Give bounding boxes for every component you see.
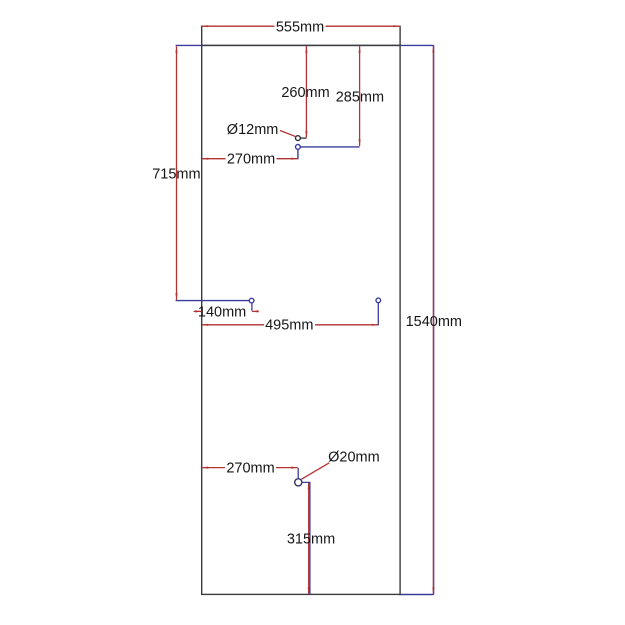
svg-text:1540mm: 1540mm xyxy=(406,314,462,330)
blue notch side line xyxy=(297,149,299,159)
black tick hole to 260mm line xyxy=(300,137,306,139)
dimension 260mm line xyxy=(305,46,307,138)
svg-text:315mm: 315mm xyxy=(287,531,335,547)
black panel outline xyxy=(202,45,400,594)
dimension 555mm line xyxy=(202,25,400,27)
leader line 20mm xyxy=(302,463,330,479)
blue panel right edge xyxy=(433,45,435,594)
blue notch top line xyxy=(300,146,359,148)
svg-text:Ø20mm: Ø20mm xyxy=(328,449,380,465)
black right edge extension xyxy=(399,26,401,46)
svg-text:270mm: 270mm xyxy=(227,152,275,168)
dimension 715mm line xyxy=(176,46,178,300)
dimension 315mm line xyxy=(308,483,310,594)
blue witness below ledge hole xyxy=(251,303,253,311)
hole 12mm black circle xyxy=(296,136,301,141)
dimension 270mm upper line xyxy=(202,158,298,160)
svg-text:270mm: 270mm xyxy=(226,461,274,477)
dimension 140mm left segment xyxy=(194,310,202,312)
svg-text:715mm: 715mm xyxy=(152,166,200,182)
blue ledge line at mid height xyxy=(176,300,250,302)
svg-text:Ø12mm: Ø12mm xyxy=(227,122,279,138)
svg-text:285mm: 285mm xyxy=(336,90,384,106)
svg-text:140mm: 140mm xyxy=(198,305,246,321)
dimension 270mm lower line xyxy=(202,467,298,469)
hole 20mm circle xyxy=(295,479,302,486)
blue witness below right hole xyxy=(377,303,379,326)
hole circle at ledge xyxy=(249,298,254,303)
dimension 1540mm line xyxy=(432,46,434,594)
black left edge extension xyxy=(201,26,203,46)
hole circle right of ledge xyxy=(376,298,381,303)
blue panel bottom edge segment xyxy=(399,594,434,596)
svg-text:495mm: 495mm xyxy=(265,318,313,334)
dimension 495mm line xyxy=(202,324,379,326)
hole 12mm blue circle xyxy=(296,145,301,150)
dimension 285mm line xyxy=(359,46,361,146)
leader line 12mm xyxy=(280,131,296,137)
svg-text:555mm: 555mm xyxy=(276,19,324,35)
dimension 140mm right segment xyxy=(252,310,259,312)
blue elbow right of 20mm hole xyxy=(302,482,310,594)
blue panel top edge xyxy=(176,44,434,46)
svg-text:260mm: 260mm xyxy=(281,85,329,101)
blue witness above 20mm hole xyxy=(297,468,299,479)
